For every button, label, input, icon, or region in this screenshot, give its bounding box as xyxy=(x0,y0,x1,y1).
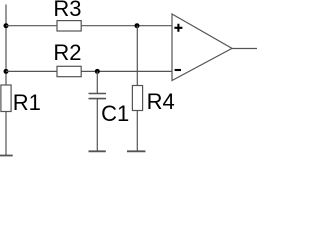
ground left rail xyxy=(0,155,13,157)
node junction dot top-left xyxy=(4,23,9,28)
wire left rail top stub xyxy=(5,5,7,26)
ground C1 xyxy=(89,150,106,152)
resistor R4 xyxy=(132,86,174,114)
wire op-amp output xyxy=(232,48,257,50)
op-amp U1 xyxy=(172,14,232,81)
ground R4 xyxy=(127,150,145,152)
wire R2 right lead to op-amp xyxy=(81,70,172,72)
svg-text:R1: R1 xyxy=(13,90,41,115)
resistor R2 xyxy=(53,40,81,77)
svg-text:C1: C1 xyxy=(101,101,129,126)
node junction dot C1 branch xyxy=(95,69,100,74)
wire left rail bottom xyxy=(5,112,7,156)
wire R2 left lead xyxy=(6,70,57,72)
wire R4 bottom lead xyxy=(136,111,138,151)
capacitor C1 xyxy=(89,94,130,127)
wire R3 right lead to op-amp xyxy=(81,25,172,27)
svg-text:R4: R4 xyxy=(147,89,175,114)
resistor R1 xyxy=(1,85,41,115)
wire R4 top lead xyxy=(136,26,138,86)
wire C1 top lead xyxy=(96,71,98,93)
wire C1 bottom lead xyxy=(96,99,98,151)
wire left rail middle xyxy=(5,26,7,85)
node junction dot R4 branch xyxy=(135,23,140,28)
svg-text:R3: R3 xyxy=(53,0,81,21)
resistor R3 xyxy=(53,0,81,31)
node junction dot mid-left xyxy=(4,69,9,74)
wire R3 left lead xyxy=(6,25,57,27)
svg-text:R2: R2 xyxy=(53,40,81,65)
